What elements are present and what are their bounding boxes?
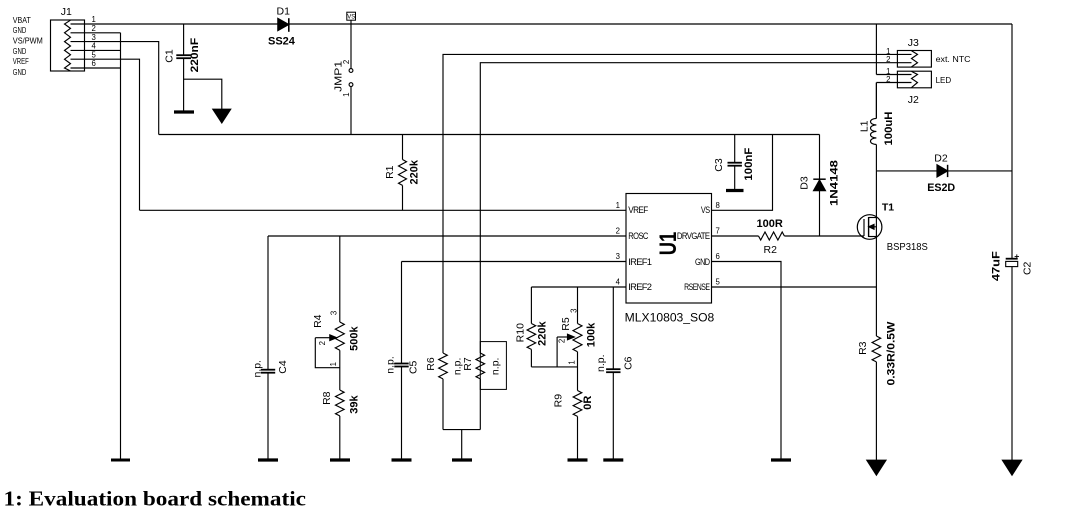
wire J1 pin2 GND bbox=[71, 32, 121, 34]
svg-text:100R: 100R bbox=[757, 218, 783, 230]
resistor R2 bbox=[759, 232, 785, 240]
net label VS box bbox=[347, 12, 356, 24]
svg-text:D2: D2 bbox=[934, 153, 948, 165]
svg-text:JMP1: JMP1 bbox=[332, 61, 344, 92]
svg-text:IREF1: IREF1 bbox=[628, 257, 652, 267]
wire T1 drain-source vertical bbox=[875, 171, 877, 336]
wire C1 to earth triangle bbox=[184, 79, 222, 109]
wire J1 pin4 GND bbox=[71, 49, 121, 51]
resistor R9 bbox=[573, 391, 582, 461]
wire NTC lower (J3 pin2 to R7) bbox=[480, 63, 897, 353]
svg-text:VS: VS bbox=[347, 14, 355, 20]
resistor R6 bbox=[439, 353, 448, 430]
label U1 pin numbers right bbox=[716, 201, 721, 287]
svg-text:SS24: SS24 bbox=[268, 36, 296, 48]
wire IREF1 rail bbox=[402, 261, 627, 263]
connector J1 bbox=[51, 20, 85, 71]
wire GND vertical from J1 bbox=[120, 33, 122, 460]
svg-text:1: 1 bbox=[92, 15, 96, 24]
svg-text:2: 2 bbox=[616, 227, 620, 236]
diode D2 bbox=[876, 165, 1012, 177]
wire VBAT rail (D1 to top-right corner) bbox=[289, 23, 1012, 25]
svg-text:ES2D: ES2D bbox=[927, 182, 955, 194]
capacitor C6 bbox=[606, 287, 620, 460]
svg-text:GND: GND bbox=[695, 257, 710, 267]
wire IREF2 rail bbox=[531, 286, 626, 288]
box around R7 n.p. label bbox=[480, 342, 506, 390]
svg-text:1N4148: 1N4148 bbox=[828, 160, 840, 206]
svg-text:6: 6 bbox=[92, 59, 96, 68]
label J2 pin numbers bbox=[886, 67, 890, 84]
svg-text:220k: 220k bbox=[536, 320, 548, 345]
wire NTC upper (J3 pin1 to R6) bbox=[443, 54, 897, 353]
svg-text:5: 5 bbox=[716, 278, 721, 287]
svg-text:n.p.: n.p. bbox=[384, 356, 396, 374]
resistor R10 bbox=[527, 287, 536, 367]
svg-text:8: 8 bbox=[716, 201, 720, 210]
wire J2 pin2 down to L1 bbox=[875, 83, 877, 119]
wire J1 pin3 VS/PWM bbox=[71, 42, 159, 135]
svg-text:0.33R/0.5W: 0.33R/0.5W bbox=[886, 321, 898, 386]
diode D3 bbox=[813, 135, 825, 237]
svg-text:0R: 0R bbox=[582, 396, 594, 410]
svg-text:C1: C1 bbox=[164, 49, 176, 63]
ground bar under R8 bbox=[330, 458, 350, 461]
svg-text:C6: C6 bbox=[623, 356, 635, 370]
svg-text:C4: C4 bbox=[277, 360, 289, 374]
svg-text:C5: C5 bbox=[407, 360, 419, 374]
ground bar under C1 bbox=[174, 110, 194, 113]
resistor R1 bbox=[399, 135, 407, 211]
wire R6-R7 common bottom bbox=[443, 430, 480, 460]
wire R2 to T1 gate bbox=[784, 235, 864, 237]
capacitor C5 bbox=[394, 262, 408, 461]
potentiometer R4 bbox=[315, 236, 344, 390]
connector J2 bbox=[876, 71, 931, 88]
svg-text:R1: R1 bbox=[384, 165, 396, 179]
svg-text:R10: R10 bbox=[515, 323, 527, 342]
svg-text:1: Evaluation board schematic: 1: Evaluation board schematic bbox=[4, 487, 307, 511]
svg-text:R5: R5 bbox=[560, 317, 572, 331]
svg-text:2: 2 bbox=[342, 60, 351, 64]
capacitor C1 bbox=[176, 24, 191, 112]
svg-text:n.p.: n.p. bbox=[595, 354, 607, 372]
ground bar under U1 GND bbox=[771, 458, 791, 461]
capacitor C4 bbox=[261, 236, 275, 460]
svg-text:1: 1 bbox=[329, 362, 338, 366]
svg-text:2: 2 bbox=[92, 24, 96, 33]
resistor R3 bbox=[872, 336, 881, 460]
svg-text:T1: T1 bbox=[882, 201, 894, 213]
svg-text:ROSC: ROSC bbox=[628, 231, 649, 241]
svg-text:RSENSE: RSENSE bbox=[684, 282, 710, 292]
label U1 pin names bbox=[628, 205, 710, 292]
svg-text:R9: R9 bbox=[553, 394, 565, 408]
op-amp U1 body MLX10803 bbox=[626, 194, 712, 304]
wire ROSC rail bbox=[268, 235, 626, 237]
svg-text:1: 1 bbox=[568, 360, 577, 364]
svg-text:MLX10803_SO8: MLX10803_SO8 bbox=[625, 311, 715, 325]
svg-text:3: 3 bbox=[330, 311, 339, 315]
svg-text:VS/PWM: VS/PWM bbox=[13, 37, 43, 46]
resistor R8 bbox=[336, 390, 345, 460]
svg-text:VBAT: VBAT bbox=[13, 16, 31, 25]
label U1 pin numbers left bbox=[616, 201, 621, 287]
wire VS/PWM rail bbox=[159, 134, 820, 136]
label J3 pin numbers bbox=[886, 47, 890, 64]
ground triangle near C1 bbox=[213, 109, 231, 123]
wire VBAT to J2 pin1 bbox=[875, 24, 877, 75]
ground bar under C3 bbox=[726, 189, 744, 192]
svg-text:BSP318S: BSP318S bbox=[887, 241, 928, 253]
wire VBAT rail (J1 pin1 to D1) bbox=[71, 23, 278, 25]
svg-text:1: 1 bbox=[616, 201, 620, 210]
svg-text:VS: VS bbox=[701, 205, 710, 215]
svg-text:R6: R6 bbox=[425, 357, 437, 371]
svg-text:4: 4 bbox=[92, 42, 97, 51]
svg-text:L1: L1 bbox=[858, 120, 870, 132]
ground bar under C4 bbox=[258, 458, 278, 461]
wire R10 bottom to R5 bottom bbox=[531, 366, 577, 368]
svg-text:C3: C3 bbox=[713, 158, 725, 172]
svg-text:5: 5 bbox=[92, 50, 97, 59]
svg-text:IREF2: IREF2 bbox=[628, 282, 652, 292]
wire J1 pin6 GND bbox=[71, 67, 121, 69]
svg-text:GND: GND bbox=[13, 26, 27, 35]
svg-text:R4: R4 bbox=[312, 314, 324, 328]
ground bar under R6/R7 bbox=[452, 458, 472, 461]
label J1 pin numbers bbox=[92, 15, 97, 68]
diode D1 bbox=[278, 18, 289, 32]
svg-text:2: 2 bbox=[886, 75, 890, 84]
svg-text:R7: R7 bbox=[462, 357, 474, 371]
svg-text:J1: J1 bbox=[61, 6, 72, 18]
svg-text:2: 2 bbox=[318, 341, 327, 345]
svg-text:GND: GND bbox=[13, 68, 27, 77]
svg-text:J2: J2 bbox=[908, 94, 919, 106]
ground bar under C6 bbox=[603, 458, 623, 461]
svg-text:ext. NTC: ext. NTC bbox=[936, 55, 971, 64]
svg-text:220nF: 220nF bbox=[189, 38, 201, 73]
svg-text:3: 3 bbox=[616, 252, 620, 261]
svg-text:n.p.: n.p. bbox=[251, 360, 263, 378]
svg-text:7: 7 bbox=[716, 227, 720, 236]
svg-text:D3: D3 bbox=[799, 176, 811, 190]
svg-text:4: 4 bbox=[616, 278, 621, 287]
wire U1 pin8 VS to C3 rail bbox=[712, 135, 773, 211]
ground bar under C5 bbox=[392, 458, 412, 461]
jumper JMP1 bbox=[349, 24, 353, 135]
capacitor C2 polarized bbox=[1006, 254, 1019, 460]
svg-text:VREF: VREF bbox=[13, 57, 29, 66]
capacitor C3 bbox=[728, 135, 742, 191]
svg-text:2: 2 bbox=[558, 339, 567, 343]
ground bar under J1 GND bbox=[111, 459, 130, 462]
label J1 pin names bbox=[13, 16, 43, 77]
svg-text:39k: 39k bbox=[349, 395, 361, 414]
svg-text:100nF: 100nF bbox=[743, 147, 755, 180]
svg-text:LED: LED bbox=[936, 76, 952, 85]
svg-text:GND: GND bbox=[13, 47, 27, 56]
wire U1 pin6 GND down bbox=[712, 262, 782, 461]
ground triangle under C2 bbox=[1002, 460, 1021, 475]
wire right vertical (VBAT corner down to C2) bbox=[1011, 24, 1013, 259]
svg-text:J3: J3 bbox=[908, 37, 919, 49]
transistor T1 bbox=[857, 215, 882, 240]
svg-text:1: 1 bbox=[342, 93, 351, 97]
svg-text:100k: 100k bbox=[585, 322, 597, 347]
svg-text:100uH: 100uH bbox=[883, 111, 895, 145]
svg-text:500k: 500k bbox=[349, 325, 361, 350]
wire VREF rail bbox=[140, 209, 627, 211]
svg-text:D1: D1 bbox=[277, 6, 291, 18]
svg-text:6: 6 bbox=[716, 252, 720, 261]
ground triangle under R3 bbox=[867, 460, 886, 475]
svg-text:n.p.: n.p. bbox=[490, 358, 502, 376]
connector J3 bbox=[897, 51, 931, 68]
potentiometer R5 bbox=[557, 287, 582, 391]
ground bar under R9 bbox=[568, 458, 588, 461]
svg-text:47uF: 47uF bbox=[991, 251, 1003, 281]
resistor R7 bbox=[476, 353, 485, 430]
wire U1 pin5 RSENSE to T1 source bbox=[712, 286, 877, 288]
svg-text:R8: R8 bbox=[321, 391, 333, 405]
wire U1 pin7 DRVGATE to R2 bbox=[712, 235, 759, 237]
svg-text:220k: 220k bbox=[409, 159, 421, 184]
svg-text:R3: R3 bbox=[857, 341, 869, 355]
wire J1 pin5 VREF bbox=[71, 59, 140, 210]
svg-text:3: 3 bbox=[570, 309, 579, 313]
svg-text:R2: R2 bbox=[764, 244, 778, 256]
svg-text:C2: C2 bbox=[1022, 261, 1034, 275]
svg-text:2: 2 bbox=[886, 55, 890, 64]
svg-text:U1: U1 bbox=[655, 232, 682, 256]
svg-text:VREF: VREF bbox=[628, 205, 648, 215]
svg-text:3: 3 bbox=[92, 33, 96, 42]
inductor L1 bbox=[870, 83, 876, 171]
